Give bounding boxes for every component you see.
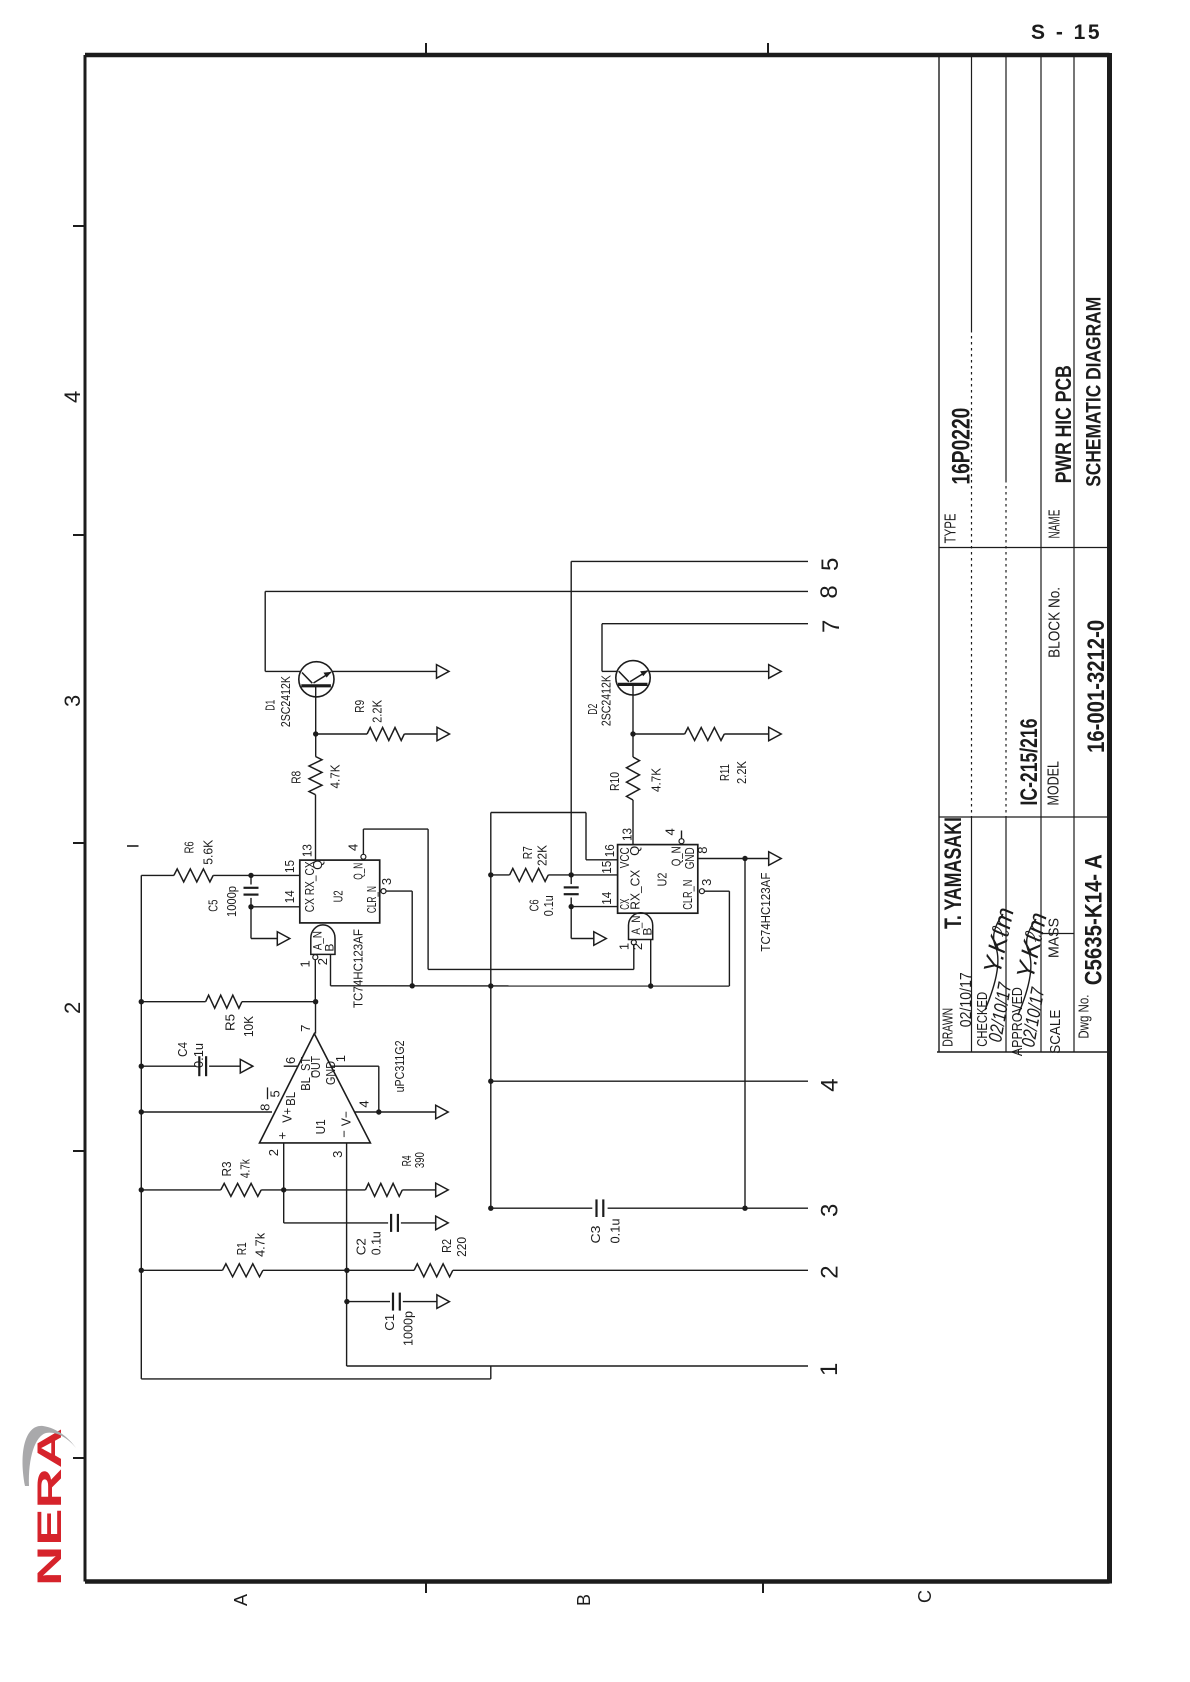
zone label 2 xyxy=(60,1002,85,1014)
NERA logo text xyxy=(31,1428,69,1586)
wire R3 to R4 xyxy=(261,1189,365,1191)
node R3 pin2 junction xyxy=(281,1187,286,1192)
wire Q_N to U2 right pin1 xyxy=(428,968,634,970)
resistor R1 xyxy=(223,1264,263,1277)
transistor D1 xyxy=(299,662,334,697)
svg-text:R6: R6 xyxy=(182,841,197,853)
wire R5 line xyxy=(141,1001,205,1003)
wire opamp output vertical xyxy=(315,1002,317,1034)
pin 7 label xyxy=(818,620,845,633)
label D2 xyxy=(585,704,600,715)
label MODEL xyxy=(1045,761,1062,806)
svg-text:V+: V+ xyxy=(279,1108,294,1123)
svg-text:R11: R11 xyxy=(717,764,732,781)
wire U1 pin2 drop xyxy=(283,1143,285,1190)
U2 right pin2 label xyxy=(630,943,645,950)
label R8 xyxy=(288,771,303,784)
wire R9 left xyxy=(316,733,367,735)
U2 right text Q_N xyxy=(669,846,684,866)
wire pin 3 net xyxy=(491,1207,808,1209)
wire R10 to U2 pin13 xyxy=(632,800,634,845)
wire D1 left xyxy=(265,670,301,672)
svg-text:14: 14 xyxy=(282,890,297,903)
svg-text:10K: 10K xyxy=(241,1016,256,1037)
label C4 xyxy=(175,1042,190,1057)
svg-text:4: 4 xyxy=(346,844,361,851)
wire C5 to U2 pin14 xyxy=(251,906,300,908)
node D2 emitter junction xyxy=(630,731,635,736)
label C2 xyxy=(353,1238,368,1255)
title block col line B xyxy=(939,816,1110,818)
svg-text:4.7k: 4.7k xyxy=(237,1159,252,1178)
wire R7 to U2 right pin15 xyxy=(548,874,617,876)
node R7 C6 junction xyxy=(569,872,574,877)
transistor D2 xyxy=(616,661,650,695)
svg-text:MODEL: MODEL xyxy=(1045,761,1062,806)
label DRAWN xyxy=(940,1008,957,1047)
svg-text:3: 3 xyxy=(379,878,394,885)
wire D2 collector xyxy=(649,670,769,672)
label C5 value 1000p xyxy=(224,886,239,917)
wire left bus vertical xyxy=(140,875,142,1379)
svg-text:2: 2 xyxy=(266,1149,281,1156)
title block MASS divider xyxy=(1041,933,1074,935)
U2 left pin2 label xyxy=(315,958,330,965)
svg-text:−: − xyxy=(337,1130,352,1138)
svg-text:4: 4 xyxy=(357,1100,372,1107)
svg-text:13: 13 xyxy=(619,828,634,841)
label uPC311G2 xyxy=(392,1040,407,1092)
wire V+ line xyxy=(141,1111,272,1113)
wire D1 collector xyxy=(332,670,437,672)
svg-text:B: B xyxy=(574,1594,594,1606)
wire R5 to opamp out xyxy=(242,1001,316,1003)
svg-text:R5: R5 xyxy=(222,1014,237,1031)
label BLOCK No. xyxy=(1046,587,1063,658)
svg-text:Q: Q xyxy=(627,846,642,856)
svg-text:BLOCK No.: BLOCK No. xyxy=(1046,587,1063,658)
label R2 xyxy=(439,1239,454,1253)
svg-text:4: 4 xyxy=(816,1078,843,1091)
U2 left text CLR_N xyxy=(364,886,379,913)
label C1 xyxy=(382,1314,397,1331)
svg-text:0.1u: 0.1u xyxy=(607,1219,622,1244)
ground arrow V- xyxy=(436,1105,449,1119)
wire U2 right pin8 gnd xyxy=(698,858,745,860)
ground arrow C6 xyxy=(594,932,607,946)
svg-text:2SC2412K: 2SC2412K xyxy=(599,675,614,726)
label Dwg No. xyxy=(1075,995,1092,1039)
U2 right gate text A_N xyxy=(629,916,643,935)
ground arrow D2 collector xyxy=(769,665,782,679)
U1 text GND xyxy=(323,1061,338,1085)
svg-text:BL_ST: BL_ST xyxy=(298,1057,313,1091)
label NAME xyxy=(1046,510,1063,539)
svg-text:R9: R9 xyxy=(352,700,367,713)
wire U1 pin3 drop xyxy=(346,1143,348,1366)
wire pin 7 net xyxy=(602,623,808,625)
U2 left pin4 label xyxy=(346,844,361,851)
node opamp output junction xyxy=(313,999,318,1004)
signature approved xyxy=(1011,910,1052,1049)
node pin1 pin4 junction xyxy=(376,1109,381,1114)
title block row line 2 xyxy=(971,55,973,1052)
label R4 xyxy=(399,1155,414,1166)
resistor R3 xyxy=(221,1183,261,1196)
U1 minus sign xyxy=(337,1130,352,1138)
svg-text:2.2K: 2.2K xyxy=(369,700,384,723)
U2 right pin4 bubble xyxy=(679,839,684,844)
frame tick L5 xyxy=(73,1457,85,1459)
U2 right pin3 bubble xyxy=(699,889,704,894)
svg-text:IC-215/216: IC-215/216 xyxy=(1016,719,1043,806)
ground arrow C1 xyxy=(437,1295,450,1309)
svg-text:220: 220 xyxy=(454,1237,469,1257)
svg-text:U2: U2 xyxy=(655,873,670,887)
wire pin 1 net xyxy=(347,1365,808,1367)
capacitor C2 xyxy=(391,1214,436,1232)
svg-text:uPC311G2: uPC311G2 xyxy=(392,1040,407,1092)
label R7 value 22K xyxy=(534,845,549,866)
svg-text:R3: R3 xyxy=(219,1162,234,1177)
label D1 value 2SC2412K xyxy=(278,676,293,727)
label R11 value 2.2K xyxy=(734,761,749,784)
U2 left pin3 label xyxy=(379,878,394,885)
frame tick T2 xyxy=(767,43,769,55)
svg-text:4.7K: 4.7K xyxy=(327,764,342,788)
zone label 4 xyxy=(60,391,85,403)
wire R7 left xyxy=(491,874,510,876)
svg-text:16-001-3212-0: 16-001-3212-0 xyxy=(1083,620,1110,753)
wire R2 to pin 2 xyxy=(453,1269,808,1271)
label R9 value 2.2K xyxy=(369,700,384,723)
svg-text:R10: R10 xyxy=(607,772,622,791)
svg-text:2.2K: 2.2K xyxy=(734,761,749,784)
svg-text:3: 3 xyxy=(816,1204,843,1217)
wire U2 right pin4 stub xyxy=(681,831,683,839)
U1 pin5 tick xyxy=(267,1087,269,1099)
wire U2 right pin1 drop xyxy=(633,945,635,970)
node vcc pin3 net xyxy=(488,1206,493,1211)
svg-text:U1: U1 xyxy=(313,1119,328,1134)
ground arrow U2 right pin8 xyxy=(769,852,782,866)
IC U2 right TC74HC123AF body xyxy=(618,845,698,914)
svg-text:3: 3 xyxy=(330,1151,345,1158)
wire R9 right xyxy=(404,733,437,735)
frame tick T1 xyxy=(425,43,427,55)
svg-text:BL: BL xyxy=(283,1092,298,1106)
svg-text:R1: R1 xyxy=(234,1242,249,1255)
svg-text:02/10/17: 02/10/17 xyxy=(958,972,975,1027)
label R5 value 10K xyxy=(241,1016,256,1037)
zone label A xyxy=(231,1594,251,1606)
resistor R7 xyxy=(510,868,549,881)
U2 left pin13 label xyxy=(300,844,315,857)
svg-text:D1: D1 xyxy=(262,700,277,711)
node C6 bottom junction xyxy=(569,904,574,909)
U2 left gate text A_N xyxy=(310,931,324,950)
wire U2 right pin3 route xyxy=(704,891,729,986)
wire R8 to U2 pin13 xyxy=(315,795,317,860)
wire R4 right xyxy=(402,1189,436,1191)
U2 right pin13 label xyxy=(619,828,634,841)
U2 left pin1 label xyxy=(298,960,313,967)
svg-text:A: A xyxy=(231,1594,251,1606)
node left bus R3 xyxy=(139,1187,144,1192)
svg-text:0.1u: 0.1u xyxy=(369,1231,384,1255)
svg-text:15: 15 xyxy=(282,860,297,873)
U1 text BL xyxy=(283,1092,298,1106)
resistor R4 xyxy=(365,1183,402,1196)
svg-text:C: C xyxy=(915,1590,935,1603)
ground arrow R9 xyxy=(437,727,450,741)
node C1 junction xyxy=(344,1299,349,1304)
svg-text:16P0220: 16P0220 xyxy=(948,408,976,485)
frame tick L3 xyxy=(73,842,85,844)
wire R6 left xyxy=(141,874,174,876)
node gnd pin8 junction xyxy=(742,856,747,861)
label R2 value 220 xyxy=(454,1237,469,1257)
U1 designator xyxy=(313,1119,328,1134)
U2 left pin14 label xyxy=(282,890,297,903)
pin 5 label xyxy=(817,558,844,571)
svg-text:15: 15 xyxy=(599,861,614,874)
svg-text:8: 8 xyxy=(816,585,843,598)
wire V- output line xyxy=(355,1111,437,1113)
pin 2 label xyxy=(816,1265,843,1278)
title block col line A xyxy=(939,547,1110,549)
U2 left text Q_N xyxy=(350,863,365,880)
title block row line 4 xyxy=(1040,55,1042,1052)
text 16-001-3212-0 xyxy=(1083,620,1110,753)
text C5635-K14- A xyxy=(1080,854,1107,985)
text drawn date 02/10/17 xyxy=(958,972,975,1027)
IC U2 left TC74HC123AF body xyxy=(300,860,380,923)
label R6 value 5.6K xyxy=(200,839,215,864)
zone label C xyxy=(915,1590,935,1603)
wire U2 left pin4 route xyxy=(363,829,428,969)
U2 right text CLR_N xyxy=(680,880,695,910)
label SCALE xyxy=(1047,1010,1064,1054)
resistor R9 xyxy=(367,728,404,741)
U2 left gate text B xyxy=(323,944,337,952)
label D1 xyxy=(262,700,277,711)
wire R3 left xyxy=(141,1189,221,1191)
wire D1 base down xyxy=(264,591,266,671)
label R9 xyxy=(352,700,367,713)
svg-text:C4: C4 xyxy=(175,1042,190,1057)
wire pin5 vertical xyxy=(570,561,572,875)
U2 right text GND xyxy=(682,847,697,869)
pin 1 label xyxy=(816,1363,843,1376)
wire bottom return xyxy=(141,1366,491,1379)
text PWR HIC PCB xyxy=(1051,365,1076,483)
node R1 pin3vert junction xyxy=(344,1268,349,1273)
svg-text:RX_CX: RX_CX xyxy=(627,869,642,909)
svg-text:1: 1 xyxy=(333,1055,348,1062)
svg-text:V−: V− xyxy=(338,1111,353,1126)
U2 left trigger gate xyxy=(311,925,335,955)
label C5 xyxy=(206,900,221,912)
wire C1 left xyxy=(347,1301,390,1303)
U2 right pin16 label xyxy=(602,844,617,857)
node R6 C5 junction xyxy=(248,873,253,878)
capacitor C1 xyxy=(393,1293,400,1311)
U1 pin6 label xyxy=(283,1057,298,1064)
node gnd pin3 net xyxy=(742,1206,747,1211)
label R3 value 4.7k xyxy=(237,1159,252,1178)
U1 pin3 label xyxy=(330,1151,345,1158)
label CHECKED xyxy=(974,992,991,1047)
node left bus Vplus xyxy=(139,1109,144,1114)
label C3 value 0.1u xyxy=(607,1219,622,1244)
node left bus C4 xyxy=(139,1064,144,1069)
pin 8 label xyxy=(816,585,843,598)
svg-text:4.7k: 4.7k xyxy=(253,1232,268,1256)
node vcc pin4 net xyxy=(488,1079,493,1084)
text SCHEMATIC DIAGRAM xyxy=(1082,297,1105,487)
polarity dash mark xyxy=(127,845,139,847)
label R10 value 4.7K xyxy=(649,768,664,792)
svg-text:C5: C5 xyxy=(206,900,221,912)
U1 pin5 label xyxy=(268,1090,283,1097)
svg-text:8: 8 xyxy=(695,846,710,853)
node C5 bottom junction xyxy=(248,904,253,909)
svg-text:SCHEMATIC DIAGRAM: SCHEMATIC DIAGRAM xyxy=(1082,297,1105,487)
wire gnd vertical xyxy=(744,859,746,1209)
wire R11 left xyxy=(633,733,685,735)
label MASS xyxy=(1046,918,1063,958)
U2 right text Q xyxy=(627,846,642,856)
U1 text OUT xyxy=(308,1056,323,1078)
wire C2 route xyxy=(284,1190,388,1223)
svg-text:4: 4 xyxy=(663,828,678,835)
svg-text:SCALE: SCALE xyxy=(1047,1010,1064,1054)
svg-text:Q: Q xyxy=(310,860,325,870)
text IC-215/216 xyxy=(1016,719,1043,806)
label TYPE xyxy=(942,513,959,543)
svg-text:Dwg No.: Dwg No. xyxy=(1075,995,1092,1039)
U1 plus sign xyxy=(274,1132,289,1140)
frame tick L1 xyxy=(73,225,85,227)
resistor R2 xyxy=(414,1264,453,1277)
ground arrow C2 xyxy=(436,1216,449,1230)
U1 pin4 label xyxy=(357,1100,372,1107)
pin 3 label xyxy=(816,1204,843,1217)
frame tick B2 xyxy=(762,1582,764,1594)
frame tick L4 xyxy=(73,1150,85,1152)
svg-text:B: B xyxy=(323,944,337,952)
U1 pin1 label xyxy=(333,1055,348,1062)
sheet number S-15 xyxy=(1031,21,1102,44)
svg-text:390: 390 xyxy=(412,1152,427,1168)
svg-text:PWR HIC PCB: PWR HIC PCB xyxy=(1051,365,1076,483)
svg-text:6: 6 xyxy=(283,1057,298,1064)
label APPROVED xyxy=(1009,987,1026,1056)
svg-text:TYPE: TYPE xyxy=(942,513,959,543)
node vcc R7 xyxy=(488,872,493,877)
svg-text:3: 3 xyxy=(60,695,85,707)
node clear net U2 right B xyxy=(648,983,653,988)
svg-text:D2: D2 xyxy=(585,704,600,715)
label R10 xyxy=(607,772,622,791)
svg-text:TC74HC123AF: TC74HC123AF xyxy=(758,873,773,952)
svg-text:C3: C3 xyxy=(588,1226,603,1244)
wire pin 8 net xyxy=(265,590,808,592)
frame tick L2 xyxy=(73,534,85,536)
svg-text:R7: R7 xyxy=(520,846,535,859)
U2 left pin1 bubble xyxy=(313,955,318,960)
wire vcc top route xyxy=(491,813,618,860)
svg-text:NERA: NERA xyxy=(31,1428,69,1586)
resistor R6 xyxy=(174,869,213,882)
node left bus R1 xyxy=(139,1268,144,1273)
wire D1 emitter xyxy=(315,686,317,757)
capacitor C5 xyxy=(244,875,259,906)
U2 right text RX_CX xyxy=(627,869,642,909)
wire R11 right xyxy=(724,733,769,735)
wire D2 left xyxy=(602,670,617,672)
svg-text:C6: C6 xyxy=(527,899,542,911)
label C6 xyxy=(527,899,542,911)
svg-text:13: 13 xyxy=(300,844,315,857)
svg-text:T. YAMASAKI: T. YAMASAKI xyxy=(940,817,967,929)
U2 right pin4 label xyxy=(663,828,678,835)
U2 right pin1 bubble xyxy=(631,940,636,945)
svg-text:C1: C1 xyxy=(382,1314,397,1331)
U2 right pin3 label xyxy=(699,879,714,886)
ground arrow C5 xyxy=(277,932,290,946)
ground arrow R11 xyxy=(769,727,782,741)
wire C6 ground run xyxy=(571,907,594,939)
label C3 xyxy=(588,1226,603,1244)
label R3 xyxy=(219,1162,234,1177)
wire U2 left pin3 route xyxy=(386,891,412,986)
title block bottom line xyxy=(937,1051,1110,1053)
svg-text:DRAWN: DRAWN xyxy=(940,1008,957,1047)
svg-text:8: 8 xyxy=(258,1104,273,1111)
label C4 value 0.1u xyxy=(191,1043,206,1068)
svg-text:2: 2 xyxy=(816,1265,843,1278)
label D2 value 2SC2412K xyxy=(599,675,614,726)
wire D2 base down xyxy=(601,624,603,672)
zone label 3 xyxy=(60,695,85,707)
label R7 xyxy=(520,846,535,859)
label R1 value 4.7k xyxy=(253,1232,268,1256)
svg-text:R2: R2 xyxy=(439,1239,454,1253)
svg-text:5: 5 xyxy=(268,1090,283,1097)
U1 text V- xyxy=(338,1111,353,1126)
wire U2 left pin1 drop xyxy=(314,960,316,1002)
U2 left pin3 bubble xyxy=(381,889,386,894)
label R1 xyxy=(234,1242,249,1255)
label R5 xyxy=(222,1014,237,1031)
svg-text:4: 4 xyxy=(60,391,85,403)
wire R1 left xyxy=(141,1269,222,1271)
capacitor C4 xyxy=(141,1056,240,1076)
U1 pin6 stub xyxy=(284,1065,299,1067)
svg-text:U2: U2 xyxy=(331,890,346,902)
svg-text:CLR_N: CLR_N xyxy=(680,880,695,910)
svg-text:1: 1 xyxy=(298,960,313,967)
svg-text:14: 14 xyxy=(599,892,614,905)
label C6 value 0.1u xyxy=(541,895,556,916)
resistor R10 xyxy=(627,757,640,800)
svg-text:2: 2 xyxy=(315,958,330,965)
wire U2 right pin2 drop xyxy=(650,940,652,987)
svg-text:B: B xyxy=(641,928,655,936)
node left bus R5 xyxy=(139,999,144,1004)
